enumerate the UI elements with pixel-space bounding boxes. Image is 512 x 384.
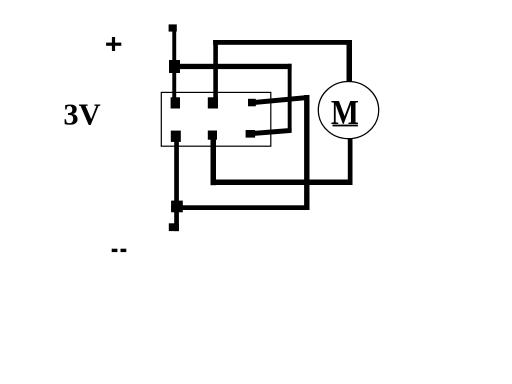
wire battery - vertical (switch pin 4 down to cap) <box>174 136 179 231</box>
node J2 junction on battery - wire <box>171 201 183 213</box>
switch pin 6 (bottom-right) <box>246 130 256 138</box>
wire motor bottom vertical <box>348 137 353 186</box>
motor M1 label underline <box>333 125 358 127</box>
wire switch pin 5 down to corner <box>211 135 217 185</box>
switch S1 (DPDT) body <box>161 92 270 146</box>
switch pin 1 (top-left) <box>171 97 180 108</box>
wire switch pin 2 up to corner <box>213 40 218 103</box>
switch pin 5 (bottom-middle) <box>208 131 217 140</box>
switch pin 2 (top-middle) <box>208 97 218 108</box>
wire motor top vertical <box>347 40 353 82</box>
label battery plus (+) <box>106 37 121 51</box>
battery + terminal cap <box>169 24 177 31</box>
wire battery + vertical (cap to switch pin 1) <box>172 26 176 103</box>
wire slanted to switch pin 6 <box>250 128 292 136</box>
node J1 junction on battery + wire <box>169 60 180 73</box>
svg-text:3V: 3V <box>63 98 100 132</box>
wire top horizontal y=42 (to motor) <box>213 40 352 45</box>
wire J1 to right corner (horizontal y=66) <box>169 64 292 69</box>
wire battery minus horizontal y=208 <box>171 205 310 210</box>
wire vertical x=290 (down to switch pin 6 wire) <box>288 64 292 132</box>
wire slanted from switch pin 3 to vertical x=307 <box>252 95 309 105</box>
switch pin 4 (bottom-left) <box>171 131 181 142</box>
wire vertical x=307 (pin 3 down to battery minus rail) <box>304 95 309 210</box>
motor M1 body (circle) <box>318 82 378 139</box>
switch pin 3 (top-right) <box>248 99 256 107</box>
label battery minus (--) <box>112 249 127 252</box>
battery - terminal cap <box>169 223 179 231</box>
wire bottom horizontal y=182 (to motor) <box>211 180 353 186</box>
